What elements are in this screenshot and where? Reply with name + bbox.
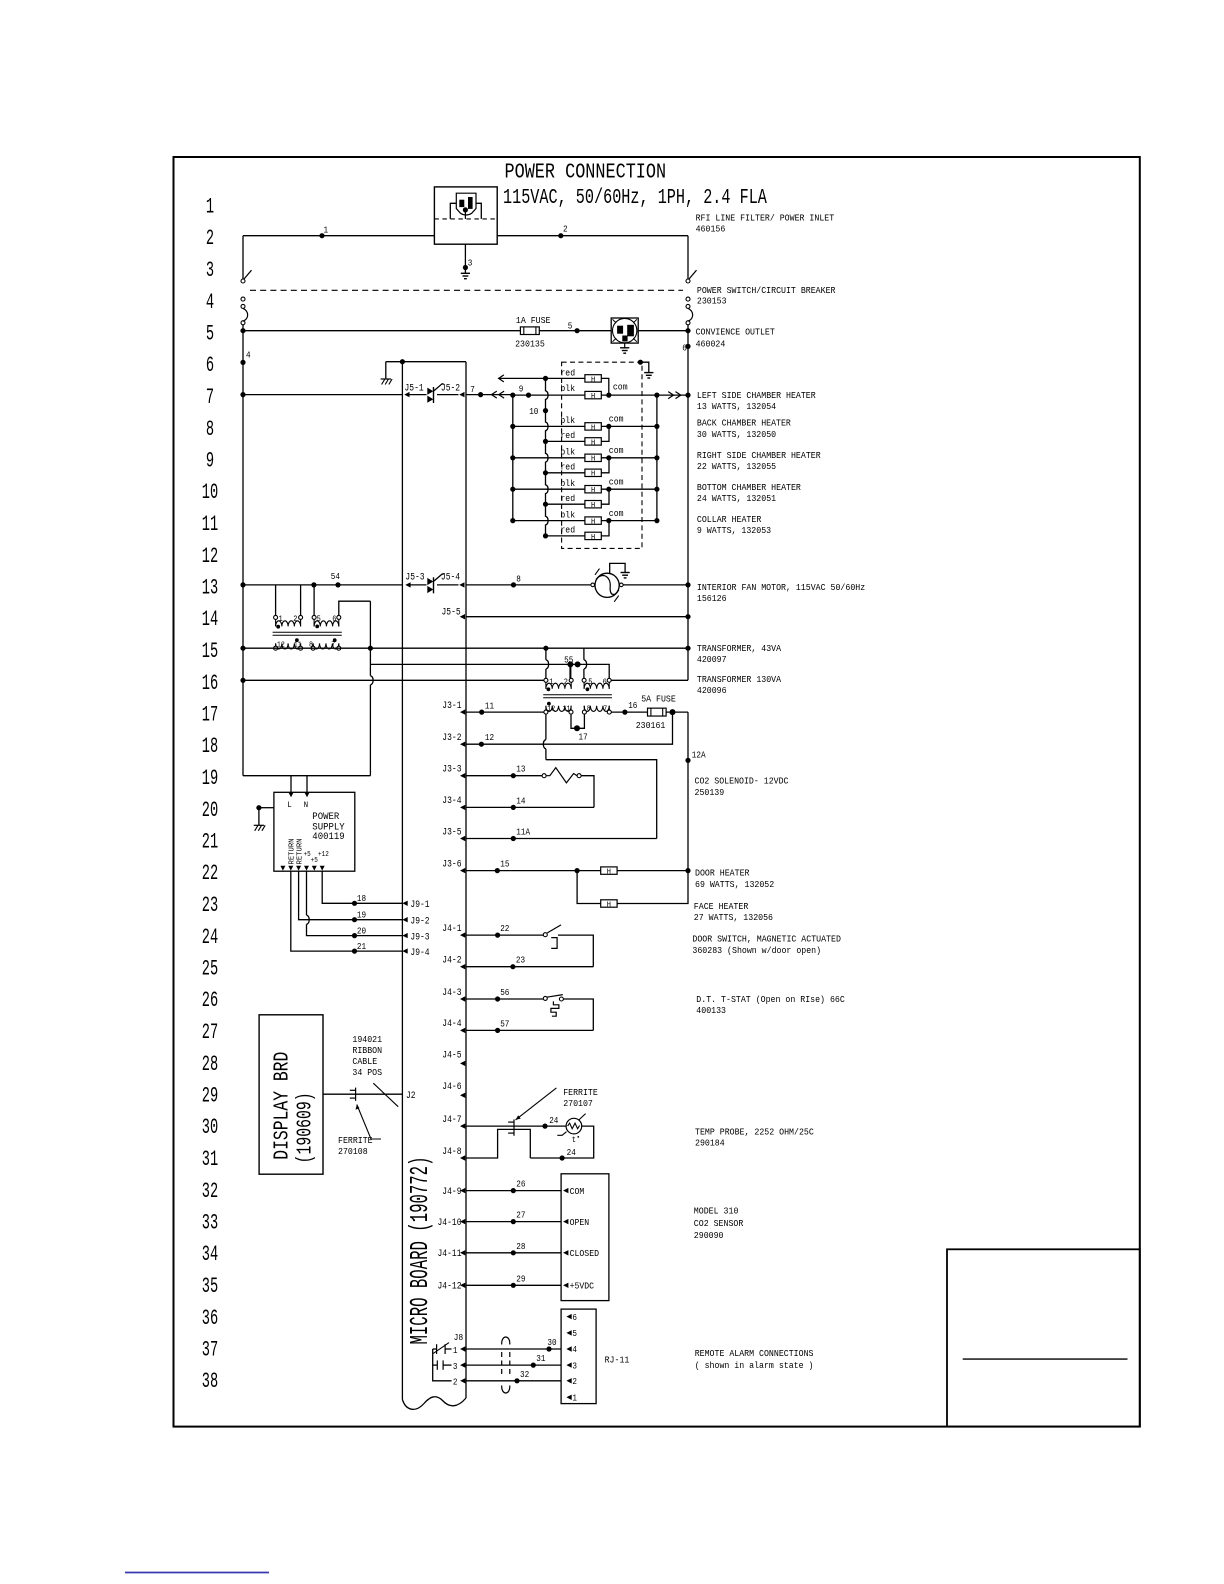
left rail vertical — [242, 325, 244, 776]
svg-text:H: H — [591, 439, 595, 447]
wire row2 right — [497, 235, 688, 237]
ground below power inlet — [461, 272, 470, 274]
svg-text:36: 36 — [202, 1306, 218, 1331]
wire J4-3 to t-stat — [466, 998, 543, 1000]
svg-text:8: 8 — [516, 573, 521, 584]
convenience outlet box — [611, 318, 638, 343]
svg-text:5: 5 — [317, 615, 321, 624]
convenience outlet face circle — [613, 318, 637, 342]
RJ-11 pin 6 — [566, 1314, 571, 1319]
svg-text:H: H — [591, 502, 595, 510]
wire T2 pin6 to right rail corner — [611, 679, 688, 681]
fuse F1 1A — [520, 327, 539, 335]
svg-text:23: 23 — [202, 893, 218, 918]
power inlet internal leads — [450, 203, 456, 219]
svg-text:15: 15 — [500, 859, 509, 870]
heater H element pair2 red — [585, 438, 601, 445]
svg-text:J4-8: J4-8 — [442, 1146, 461, 1158]
transformer T1 primary stubs — [275, 585, 277, 616]
wire fan to right rail — [623, 584, 688, 586]
svg-text:10: 10 — [202, 480, 218, 505]
chassis ground at micro board — [381, 378, 391, 380]
wire triac2 to J5-4 — [437, 584, 459, 586]
svg-text:400119: 400119 — [312, 832, 344, 843]
connector J5-1 — [404, 392, 409, 397]
node 56 — [495, 996, 500, 1001]
svg-text:24: 24 — [549, 1115, 558, 1126]
node right rail row13 — [685, 582, 690, 587]
svg-text:OPEN: OPEN — [570, 1218, 590, 1228]
heater H element pair3 blk — [585, 454, 601, 461]
svg-text:J4-12: J4-12 — [438, 1281, 462, 1293]
node right rail row14 — [685, 614, 690, 619]
triac Q1 — [433, 387, 435, 403]
RJ-11 pin 2 — [566, 1378, 571, 1383]
svg-text:11: 11 — [485, 700, 494, 711]
svg-text:com: com — [609, 509, 624, 519]
breaker left arc — [243, 308, 248, 321]
title block divider line — [963, 1358, 1128, 1360]
svg-text:56: 56 — [500, 987, 509, 998]
wire pair4 red up to com — [601, 489, 609, 504]
node 27 — [511, 1219, 516, 1224]
right rail vertical upper — [687, 325, 689, 681]
connector J9-3 — [402, 933, 407, 938]
node row7 right rail — [685, 393, 690, 398]
face heater loop — [577, 871, 688, 904]
svg-text:CONVIENCE OUTLET: CONVIENCE OUTLET — [696, 327, 775, 338]
svg-text:27 WATTS, 132056: 27 WATTS, 132056 — [694, 912, 773, 923]
svg-text:19: 19 — [357, 910, 366, 921]
svg-text:H: H — [591, 424, 595, 432]
svg-text:30 WATTS, 132050: 30 WATTS, 132050 — [697, 429, 776, 440]
wire pair5 red up to com — [601, 521, 609, 536]
svg-text:38: 38 — [202, 1369, 218, 1394]
heater H element pair2 blk — [585, 423, 601, 430]
svg-text:red: red — [560, 494, 575, 504]
display board U3 box — [259, 1015, 323, 1174]
power supply N lead — [306, 776, 308, 793]
footer blue underline — [125, 1572, 269, 1574]
transformer T2 core — [543, 694, 612, 696]
wire J4-8 jog under ferrite — [466, 1129, 530, 1158]
RJ-11 pin 5 — [566, 1330, 571, 1335]
J8 pin1 wire to RJ pin4 — [466, 1348, 561, 1350]
node riser row15 — [368, 646, 373, 651]
svg-text:2: 2 — [572, 1377, 577, 1387]
node 30 — [546, 1346, 551, 1351]
transformer T1 primary pins — [274, 615, 278, 619]
ferrite leader with arrow — [357, 1105, 381, 1140]
svg-text:J9-3: J9-3 — [410, 931, 429, 943]
svg-text:POWER SWITCH/CIRCUIT BREAKER: POWER SWITCH/CIRCUIT BREAKER — [697, 285, 836, 296]
svg-text:5: 5 — [568, 320, 573, 331]
svg-text:32: 32 — [202, 1179, 218, 1204]
svg-text:19: 19 — [202, 766, 218, 791]
sensor pin CLOSED — [563, 1250, 568, 1255]
wire t-stat to J4-4 — [563, 999, 593, 1030]
heater H element pair1 red — [585, 375, 601, 382]
node 22 — [495, 933, 500, 938]
J8 pin3 wire to RJ pin3 — [466, 1364, 561, 1366]
connector J9-2 — [402, 917, 407, 922]
svg-text:16: 16 — [202, 671, 218, 696]
svg-text:14: 14 — [516, 795, 525, 806]
RFI line filter / power inlet U1 box — [434, 187, 497, 244]
wire J4-4 — [466, 1029, 593, 1031]
heater block dashed enclosure — [562, 362, 642, 548]
svg-text:J9-1: J9-1 — [410, 899, 429, 911]
node 24b — [560, 1155, 565, 1160]
power inlet center pin — [463, 207, 468, 212]
svg-text:MODEL 310: MODEL 310 — [694, 1206, 739, 1217]
node micro board top-left — [400, 359, 405, 364]
heater block ground symbol — [644, 372, 653, 374]
svg-text:27: 27 — [516, 1210, 525, 1221]
svg-text:J8: J8 — [454, 1332, 464, 1343]
svg-text:J9-4: J9-4 — [410, 947, 429, 959]
svg-text:blk: blk — [560, 510, 575, 520]
svg-text:11: 11 — [563, 706, 571, 714]
svg-text:J5-1: J5-1 — [405, 382, 424, 394]
svg-text:red: red — [560, 526, 575, 536]
power inlet connector face — [456, 193, 476, 215]
node 6 — [685, 344, 690, 349]
wire triac to J5-2 — [437, 394, 459, 396]
node 14 — [511, 805, 516, 810]
node 12 — [479, 742, 484, 747]
svg-text:H: H — [591, 519, 595, 527]
T2 pin12 tap to J3-5 route — [545, 714, 547, 740]
heater H element pair3 red — [585, 469, 601, 476]
node right rail row15 — [685, 646, 690, 651]
wire pair3 red up to com — [601, 458, 609, 473]
svg-text:34 POS: 34 POS — [352, 1067, 382, 1078]
neutral riser vertical with hop over row16 — [369, 601, 371, 676]
svg-text:25: 25 — [202, 957, 218, 982]
svg-text:H: H — [591, 456, 595, 464]
svg-text:22: 22 — [500, 923, 509, 934]
node 29 — [511, 1283, 516, 1288]
wire pair1 red to com — [601, 378, 609, 395]
svg-text:7: 7 — [603, 706, 607, 714]
svg-text:COM: COM — [570, 1187, 585, 1197]
heater H element face — [601, 900, 617, 907]
wire rail bottom corner to neutral riser — [243, 775, 370, 777]
power supply L lead — [290, 776, 292, 793]
svg-text:4: 4 — [206, 290, 214, 315]
svg-text:FERRITE: FERRITE — [563, 1087, 598, 1098]
connector J9-4 — [402, 948, 407, 953]
wire J4-11 to sensor CLOSED — [466, 1252, 561, 1254]
svg-text:BOTTOM CHAMBER HEATER: BOTTOM CHAMBER HEATER — [697, 482, 801, 493]
wire J4-12 to sensor +5VDC — [466, 1284, 561, 1286]
svg-text:com: com — [609, 415, 624, 425]
svg-text:22: 22 — [202, 861, 218, 886]
node 19 — [352, 917, 357, 922]
RJ-11 jack box — [561, 1309, 596, 1404]
svg-text:J4-7: J4-7 — [442, 1114, 461, 1126]
transformer T1 core — [273, 631, 342, 633]
svg-text:RFI LINE FILTER/ POWER INLET: RFI LINE FILTER/ POWER INLET — [696, 212, 835, 223]
node 1 — [319, 233, 324, 238]
transformer T1 polarity dots primary — [276, 625, 280, 629]
svg-text:30: 30 — [547, 1337, 556, 1348]
node heater block ground — [638, 360, 643, 365]
wire pair2 com to right bus — [601, 425, 657, 427]
wire door switch to J4-2 — [558, 935, 593, 967]
fan motor M1 — [591, 583, 595, 587]
heater pair3 red wire — [546, 472, 585, 474]
breaker left contact circles — [241, 279, 245, 283]
svg-text:33: 33 — [202, 1211, 218, 1236]
micro board U2 outline — [401, 362, 403, 1400]
triac Q2 — [433, 577, 435, 593]
svg-text:5A FUSE: 5A FUSE — [641, 693, 676, 704]
svg-text:2: 2 — [563, 224, 568, 235]
svg-text:RIBBON: RIBBON — [352, 1045, 382, 1056]
svg-text:10: 10 — [529, 406, 538, 417]
svg-text:com: com — [609, 446, 624, 456]
svg-text:1: 1 — [453, 1346, 458, 1356]
svg-text:+5: +5 — [311, 857, 318, 865]
svg-text:J4-10: J4-10 — [438, 1217, 462, 1229]
svg-text:8: 8 — [206, 417, 214, 442]
svg-text:194021: 194021 — [352, 1034, 382, 1045]
svg-text:17: 17 — [579, 732, 588, 743]
node 32 — [514, 1378, 519, 1383]
convenience outlet corner ticks — [613, 319, 617, 323]
wire J3-6 door heater — [466, 870, 688, 872]
svg-text:7: 7 — [206, 385, 214, 410]
svg-text:TEMP PROBE, 2252 OHM/25C: TEMP PROBE, 2252 OHM/25C — [695, 1127, 814, 1138]
svg-text:DOOR SWITCH, MAGNETIC ACTUATED: DOOR SWITCH, MAGNETIC ACTUATED — [692, 934, 841, 945]
svg-text:420097: 420097 — [697, 654, 727, 665]
svg-text:37: 37 — [202, 1338, 218, 1363]
heater pair5 blk wire — [513, 520, 585, 522]
wire +12 to J9-1 — [322, 871, 402, 903]
node 9 — [526, 393, 531, 398]
svg-text:270108: 270108 — [338, 1146, 368, 1157]
svg-text:6: 6 — [572, 1313, 577, 1323]
svg-text:blk: blk — [560, 448, 575, 458]
node 11 — [479, 710, 484, 715]
svg-text:6: 6 — [682, 343, 687, 354]
svg-text:REMOTE ALARM CONNECTIONS: REMOTE ALARM CONNECTIONS — [695, 1348, 814, 1359]
svg-text:69 WATTS, 132052: 69 WATTS, 132052 — [695, 879, 774, 890]
svg-text:H: H — [607, 869, 611, 877]
alarm capacitor at J8-3 — [436, 1360, 438, 1369]
power supply ground lead — [259, 807, 274, 809]
svg-text:5: 5 — [206, 322, 214, 347]
outlet ground pin — [623, 336, 628, 341]
svg-text:t: t — [572, 1136, 576, 1145]
heater pair2 blk wire — [513, 425, 585, 427]
svg-text:J3-4: J3-4 — [442, 795, 461, 807]
svg-text:J4-1: J4-1 — [442, 923, 461, 935]
transformer T2 pin5 riser with hop over wire55 — [583, 648, 585, 660]
node 8 — [511, 582, 516, 587]
transformer T1 primary windings — [275, 619, 277, 626]
svg-text:360283 (Shown w/door open): 360283 (Shown w/door open) — [692, 945, 821, 956]
RJ-11 pin 1 — [566, 1395, 571, 1400]
svg-text:420096: 420096 — [697, 685, 727, 696]
svg-text:FACE HEATER: FACE HEATER — [694, 901, 749, 912]
svg-text:J4-9: J4-9 — [442, 1186, 461, 1198]
svg-text:31: 31 — [536, 1353, 545, 1364]
svg-text:460024: 460024 — [696, 339, 726, 350]
node 55 pin2 — [567, 661, 573, 667]
row numbers 1-38 — [202, 195, 218, 1395]
svg-text:J3-6: J3-6 — [442, 858, 461, 870]
svg-text:290184: 290184 — [695, 1138, 725, 1149]
wire row7 board to heater block — [466, 394, 513, 396]
svg-text:400133: 400133 — [696, 1005, 726, 1016]
svg-text:29: 29 — [516, 1273, 525, 1284]
svg-text:N: N — [304, 800, 309, 810]
node fuse output — [670, 709, 676, 715]
svg-text:blk: blk — [560, 416, 575, 426]
fan motor ground symbol — [621, 572, 630, 574]
svg-text:12: 12 — [202, 544, 218, 569]
svg-text:TRANSFORMER, 43VA: TRANSFORMER, 43VA — [697, 643, 781, 654]
power inlet internal dashed line — [434, 218, 497, 220]
wire J4-2 — [466, 966, 593, 968]
wire J3-4 — [466, 806, 594, 808]
power supply PS1 box — [274, 792, 355, 871]
wire fuse to corner — [666, 711, 688, 713]
ferrite bead on temp probe pair — [508, 1121, 514, 1123]
transformer T2 primary windings — [545, 682, 547, 689]
svg-text:J4-11: J4-11 — [438, 1248, 462, 1260]
transformer T1 pin6 jog to row15 — [339, 601, 371, 615]
dashed mechanical link between breaker poles — [250, 289, 683, 291]
heater red bus with hops — [546, 378, 549, 536]
svg-text:18: 18 — [202, 734, 218, 759]
door switch SW1 — [543, 933, 547, 937]
svg-text:J3-2: J3-2 — [442, 732, 461, 744]
svg-text:RIGHT SIDE CHAMBER HEATER: RIGHT SIDE CHAMBER HEATER — [697, 450, 821, 461]
svg-text:20: 20 — [202, 798, 218, 823]
12A rail down to door heater — [687, 712, 689, 872]
svg-text:26: 26 — [516, 1179, 525, 1190]
node 21 — [352, 949, 357, 954]
svg-text:11A: 11A — [516, 827, 530, 838]
wire row7 rail to board — [243, 394, 402, 396]
svg-text:54: 54 — [331, 571, 340, 582]
breaker right blade — [689, 270, 697, 279]
wire row5 right segment — [638, 330, 688, 332]
svg-text:J5-4: J5-4 — [441, 572, 460, 584]
node 54 — [335, 582, 340, 587]
node door heater junction — [575, 868, 580, 873]
svg-text:28: 28 — [202, 1052, 218, 1077]
svg-text:12: 12 — [547, 706, 555, 714]
heater pair2 red wire — [546, 440, 585, 442]
svg-text:CO2 SOLENOID- 12VDC: CO2 SOLENOID- 12VDC — [695, 775, 789, 786]
svg-text:J4-2: J4-2 — [442, 955, 461, 967]
wire row13 board to fan — [466, 584, 591, 586]
temp probe ferrite leader — [516, 1088, 557, 1120]
svg-text:H: H — [591, 471, 595, 479]
node door heater right rail — [685, 868, 690, 873]
transformer T2 pin1 riser with hop over wire55 — [545, 648, 547, 660]
svg-text:+5VDC: +5VDC — [570, 1282, 595, 1292]
wire J4-7 to thermistor — [466, 1125, 566, 1127]
node right rail row5 — [685, 328, 690, 333]
node 31 — [531, 1363, 536, 1368]
node pin5 stub row13 — [311, 582, 316, 587]
svg-text:17: 17 — [202, 703, 218, 728]
svg-text:+12: +12 — [318, 851, 329, 859]
svg-text:24: 24 — [202, 925, 218, 950]
svg-text:J4-3: J4-3 — [442, 987, 461, 999]
node 17 — [574, 725, 580, 731]
sensor pin +5VDC — [563, 1283, 568, 1288]
wire from node1 corner down to breaker — [242, 236, 244, 279]
svg-text:2: 2 — [206, 226, 214, 251]
svg-text:TRANSFORMER 130VA: TRANSFORMER 130VA — [697, 674, 781, 685]
svg-text:3: 3 — [453, 1362, 458, 1372]
svg-text:LEFT SIDE CHAMBER HEATER: LEFT SIDE CHAMBER HEATER — [697, 390, 816, 401]
node 12A — [685, 758, 690, 763]
heater H element pair5 red — [585, 532, 601, 539]
wire J3-2 to fuse output — [466, 712, 673, 744]
node rail row16 — [240, 678, 245, 683]
node 13 — [511, 773, 516, 778]
node 5 — [575, 328, 580, 333]
transformer T2 secondary pins — [544, 710, 548, 714]
node rail row7 — [240, 392, 245, 397]
wire J4-9 to sensor COM — [466, 1190, 561, 1192]
transformer T2 center tap pins 11+8 — [571, 714, 584, 728]
node row7 out — [478, 392, 483, 397]
svg-text:12: 12 — [485, 732, 494, 743]
heater pair1 blk wire — [513, 394, 585, 396]
wire pair4 com to right bus — [601, 488, 657, 490]
heater H element pair4 blk — [585, 486, 601, 493]
power supply output pins — [280, 866, 285, 871]
wire pair2 red up to com — [601, 426, 609, 441]
RJ-11 pin 4 — [566, 1346, 571, 1351]
svg-text:250139: 250139 — [695, 787, 725, 798]
svg-text:13: 13 — [202, 576, 218, 601]
node 23 — [510, 964, 515, 969]
svg-text:35: 35 — [202, 1274, 218, 1299]
cable chevrons left of heater block — [492, 391, 497, 398]
svg-text:H: H — [591, 534, 595, 542]
svg-text:8: 8 — [587, 706, 591, 714]
wire pair1 com to right bus — [601, 394, 688, 396]
svg-text:( shown in alarm state ): ( shown in alarm state ) — [695, 1360, 814, 1371]
svg-text:MICRO BOARD (190772): MICRO BOARD (190772) — [405, 1157, 435, 1345]
wire J3-5 — [466, 838, 657, 840]
svg-text:com: com — [613, 382, 628, 392]
svg-text:18: 18 — [357, 893, 366, 904]
transformer T2 polarity dots primary — [547, 687, 551, 691]
node row15 at 130VA pin1 riser — [543, 646, 548, 651]
svg-text:com: com — [609, 478, 624, 488]
svg-text:J3-5: J3-5 — [442, 826, 461, 838]
svg-text:4: 4 — [246, 350, 251, 361]
node 26 — [511, 1188, 516, 1193]
svg-text:29: 29 — [202, 1084, 218, 1109]
wire J2 ribbon cable — [323, 1093, 402, 1095]
heater H element pair5 blk — [585, 517, 601, 524]
svg-text:9: 9 — [206, 449, 214, 474]
alarm NC contact at J8-1 — [436, 1344, 438, 1354]
svg-text:RJ-11: RJ-11 — [605, 1355, 630, 1366]
